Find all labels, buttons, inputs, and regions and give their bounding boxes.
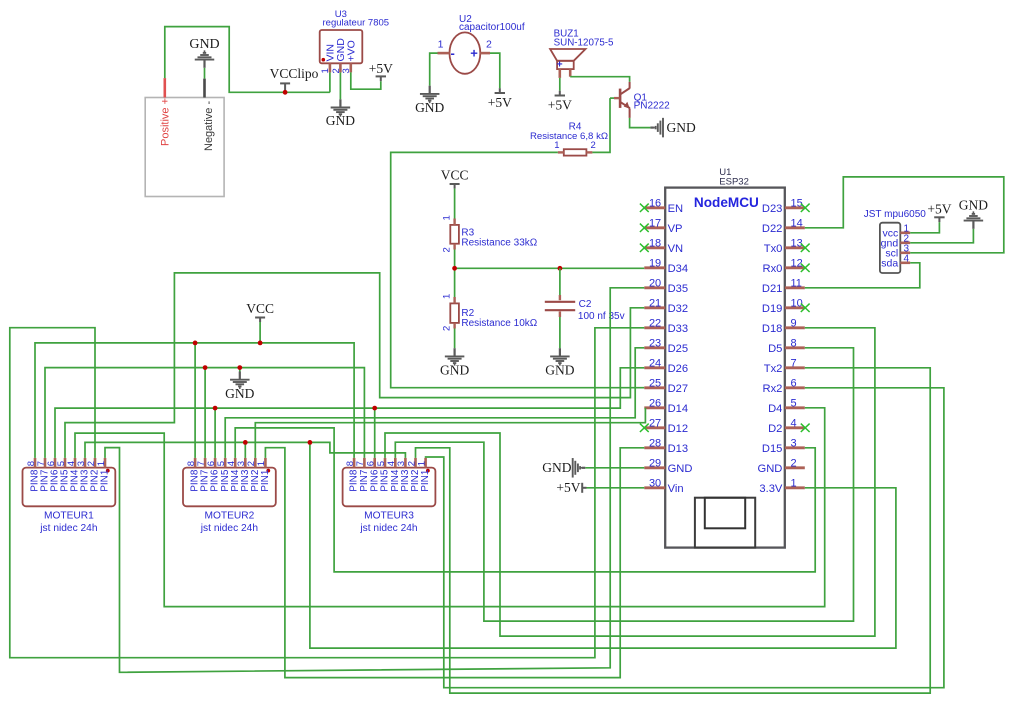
MOTEUR1 pin 5: [56, 458, 71, 492]
wire net GND motor PIN7 bus: [45, 368, 364, 458]
no-connect X at pin 10: [801, 304, 810, 312]
svg-text:Positive +: Positive +: [159, 98, 171, 146]
svg-text:Rx0: Rx0: [762, 263, 782, 275]
no-connect X at pin 17: [640, 224, 649, 232]
MOTEUR3 pin 7: [355, 458, 370, 492]
svg-text:9: 9: [791, 318, 797, 330]
svg-text:1: 1: [416, 461, 427, 466]
MOTEUR1 pin1 marker: [106, 469, 110, 473]
svg-text:18: 18: [649, 238, 661, 250]
wire net Rx2 pin 6 to MOTEUR3 PIN1: [426, 388, 944, 688]
power +5V at JST: [927, 202, 951, 222]
MOTEUR3 pin 8: [345, 458, 360, 492]
power VCC above R3: [441, 168, 469, 189]
wire net D18 pin 9 to MOTEUR3 PIN5: [385, 328, 875, 636]
wire VIN down to input node: [329, 72, 331, 92]
MOTEUR1 pin 2: [86, 458, 101, 492]
svg-text:1: 1: [554, 140, 559, 151]
svg-text:VCC: VCC: [441, 168, 469, 183]
svg-text:2: 2: [441, 326, 452, 331]
wire VCC to R3: [454, 189, 456, 219]
ESP32 pin 14 D22: [762, 218, 805, 235]
svg-text:JST mpu6050: JST mpu6050: [864, 209, 927, 220]
MOTEUR3 pin 1: [416, 458, 431, 492]
svg-text:sda: sda: [881, 257, 898, 269]
wire C2 to ground: [559, 317, 561, 348]
svg-text:Resistance 10kΩ: Resistance 10kΩ: [461, 318, 537, 329]
svg-text:D26: D26: [668, 363, 689, 375]
wire R4 to Q1 base: [592, 98, 610, 152]
MOTEUR2 pin 2: [246, 458, 261, 492]
MOTEUR1 pin 8: [26, 458, 41, 492]
svg-text:+VO: +VO: [346, 40, 358, 61]
wire net D25 pin 23 to MOTEUR2 PIN5: [225, 348, 644, 458]
svg-text:D34: D34: [668, 263, 689, 275]
svg-text:GND: GND: [440, 363, 469, 378]
ESP32 pin 26 D14: [644, 398, 688, 415]
ESP32 pin 19 D34: [644, 258, 688, 275]
ESP32 pin 6 Rx2: [762, 378, 804, 395]
MOTEUR2 pin 7: [196, 458, 211, 492]
svg-text:MOTEUR3: MOTEUR3: [364, 511, 414, 522]
svg-text:5: 5: [791, 398, 797, 410]
no-connect X at pin 13: [801, 244, 810, 252]
wire MOTEUR2 PIN6 to D26 bus: [214, 408, 216, 458]
junction VCC bus stem: [258, 341, 263, 346]
ground below PIN7 bus: [225, 372, 254, 402]
MOTEUR3 pin 3: [396, 458, 411, 492]
svg-text:jst nidec 24h: jst nidec 24h: [200, 523, 258, 534]
svg-text:D23: D23: [762, 203, 783, 215]
wire net sda JST to pin 11 D21: [805, 263, 920, 288]
battery connector J-LIPO box: [145, 98, 224, 197]
svg-text:D15: D15: [762, 443, 783, 455]
svg-text:Resistance 6,8 kΩ: Resistance 6,8 kΩ: [530, 131, 608, 142]
power +5V below buzzer: [548, 91, 572, 113]
svg-text:2: 2: [441, 247, 452, 252]
ESP32 pin 16 EN: [644, 198, 683, 215]
wire Q1 emitter to ground: [630, 118, 651, 128]
ESP32 pin 24 D26: [644, 358, 688, 375]
connector MOTEUR3 body: [343, 468, 436, 507]
connector JST mpu6050 body: [880, 223, 900, 273]
ground below U3: [326, 99, 355, 128]
ESP32 pin 17 VP: [644, 218, 682, 235]
ground below C2: [545, 348, 574, 377]
junction GND bus stem: [237, 365, 242, 370]
svg-text:D25: D25: [668, 343, 689, 355]
svg-text:30: 30: [649, 478, 661, 490]
ESP32 pin 20 D35: [644, 278, 688, 295]
ESP32 pin 10 D19: [762, 298, 805, 315]
svg-text:GND: GND: [758, 463, 783, 475]
svg-text:2: 2: [791, 458, 797, 470]
R3 pin 1 stub: [453, 219, 455, 225]
svg-text:D33: D33: [668, 323, 689, 335]
svg-text:D32: D32: [668, 303, 689, 315]
wire net D26 pin 24 to motor PIN6 bus: [55, 368, 644, 458]
svg-text:+5V: +5V: [548, 97, 572, 112]
svg-text:23: 23: [649, 338, 661, 350]
svg-text:+: +: [557, 59, 563, 71]
wire VCC stem: [259, 322, 261, 343]
connector MOTEUR1 body: [23, 468, 116, 507]
wire net D14 pin 26 to MOTEUR2 PIN2: [255, 408, 645, 458]
svg-text:NodeMCU: NodeMCU: [694, 195, 759, 210]
wire U2 pin1 to ground: [430, 53, 438, 86]
wire U2 pin2 to +5V: [490, 53, 500, 88]
svg-text:3.3V: 3.3V: [759, 483, 783, 495]
svg-text:D19: D19: [762, 303, 783, 315]
svg-text:28: 28: [649, 438, 661, 450]
wire GND bus stem: [239, 368, 241, 372]
wire net D32 pin 21 to MOTEUR1 PIN5: [65, 273, 644, 458]
MOTEUR3 pin 5: [376, 458, 391, 492]
U2 pin 1 stub: [438, 52, 450, 55]
svg-text:D27: D27: [668, 383, 689, 395]
ESP32 pin 2 GND: [758, 458, 805, 475]
wire JST gnd to ground: [910, 229, 973, 243]
wire net D4 pin 5 to MOTEUR1 PIN4: [75, 408, 825, 607]
wire MOTEUR2 PIN3 to 3.3V bus: [244, 442, 246, 458]
svg-text:6: 6: [791, 378, 797, 390]
no-connect X at pin 12: [801, 264, 810, 272]
ESP32 pin 18 VN: [644, 238, 683, 255]
ESP32 pin 1 3.3V: [759, 478, 804, 495]
MOTEUR2 pin1 marker: [266, 469, 270, 473]
ESP32 pin 5 D4: [768, 398, 805, 415]
svg-text:1: 1: [438, 39, 444, 51]
BUZ1 pin 2 stub: [569, 69, 572, 77]
junction D26 bus M3: [372, 406, 377, 411]
ESP32 pin 21 D32: [644, 298, 688, 315]
svg-text:PN2222: PN2222: [634, 101, 671, 112]
power flag VCClipo: [270, 66, 319, 92]
R4 pin 2 stub: [586, 151, 592, 153]
ground below U2: [415, 86, 444, 115]
wire negative to GND: [204, 68, 206, 79]
svg-text:4: 4: [791, 418, 797, 430]
wire net D13 pin 28 to MOTEUR2 PIN1: [265, 448, 644, 678]
ESP32 pin 11 D21: [762, 278, 805, 295]
wire MOTEUR2 PIN7 to GND bus: [204, 368, 206, 458]
junction VCC bus M2: [193, 341, 198, 346]
svg-text:8: 8: [791, 338, 797, 350]
junction GND bus M2: [203, 365, 208, 370]
svg-text:11: 11: [791, 278, 802, 290]
ground at ESP32 pin 29: [542, 458, 585, 478]
svg-text:PIN1: PIN1: [260, 469, 271, 492]
wire net D33 pin 22 to MOTEUR1 PIN2: [10, 328, 645, 658]
ESP32 pin 28 D13: [644, 438, 688, 455]
U3 pin 3 stub: [349, 63, 352, 72]
ESP32 usb connector: [695, 498, 755, 548]
JST pin 3 scl: [885, 243, 910, 259]
junction C2 top node: [558, 266, 563, 271]
svg-text:D13: D13: [668, 443, 689, 455]
no-connect X at pin 15: [801, 204, 810, 212]
svg-text:7: 7: [791, 358, 797, 370]
wire R3 to divider node: [454, 250, 456, 269]
MOTEUR1 pin 7: [36, 458, 51, 492]
svg-text:Resistance 33kΩ: Resistance 33kΩ: [461, 238, 537, 249]
svg-text:1: 1: [441, 215, 452, 220]
wire MOTEUR2 PIN8 to VCC bus: [194, 343, 196, 458]
MOTEUR1 pin 6: [46, 458, 61, 492]
wire +5V to pin 30: [587, 487, 645, 489]
svg-text:19: 19: [649, 258, 661, 270]
svg-text:PIN1: PIN1: [100, 469, 111, 492]
ground at JST: [959, 198, 988, 229]
resistor R4 6.8k body: [564, 149, 587, 155]
svg-text:C2: C2: [579, 299, 592, 310]
wire JST vcc to +5V: [910, 222, 939, 233]
junction R3 R2 node: [452, 266, 457, 271]
ESP32 pin 12 Rx0: [762, 258, 804, 275]
svg-text:26: 26: [649, 398, 661, 410]
JST pin 1 vcc: [882, 223, 910, 239]
ESP32 pin 27 D12: [644, 418, 688, 435]
svg-text:27: 27: [649, 418, 661, 430]
MOTEUR1 pin 3: [76, 458, 91, 492]
power +5V at U3 output: [369, 61, 393, 81]
no-connect X at pin 27: [640, 424, 649, 432]
capacitor U2 100uF body: [450, 32, 481, 73]
MOTEUR2 pin 1: [256, 458, 271, 492]
wire net scl JST to pin 14 D22: [805, 177, 1004, 253]
wire net Tx2 pin 7 to MOTEUR3 PIN2: [416, 368, 931, 693]
svg-text:D5: D5: [768, 343, 782, 355]
MOTEUR3 pin1 marker: [426, 469, 430, 473]
svg-text:22: 22: [649, 318, 661, 330]
svg-text:PIN1: PIN1: [420, 469, 431, 492]
power +5V below U2: [488, 88, 512, 110]
svg-text:GND: GND: [189, 37, 219, 52]
svg-text:D4: D4: [768, 403, 782, 415]
transistor Q1 PN2222: [614, 82, 630, 118]
battery positive pin: [164, 78, 167, 97]
svg-text:MOTEUR2: MOTEUR2: [204, 511, 254, 522]
MOTEUR2 pin 8: [186, 458, 201, 492]
wire net D15 pin 3 to MOTEUR2 PIN4: [235, 428, 815, 572]
wire net 3.3V bus to pin 1: [310, 442, 896, 648]
svg-text:ESP32: ESP32: [719, 177, 749, 188]
svg-text:jst nidec 24h: jst nidec 24h: [39, 523, 97, 534]
svg-text:D14: D14: [668, 403, 689, 415]
ESP32 pin 7 Tx2: [764, 358, 805, 375]
power VCC above motor bus: [246, 301, 274, 322]
ESP32 pin 8 D5: [768, 338, 805, 355]
wire Q1 base stub: [610, 97, 614, 99]
MOTEUR3 pin 2: [406, 458, 421, 492]
wire net VCC motor PIN8 bus: [35, 343, 354, 458]
svg-text:D22: D22: [762, 223, 783, 235]
svg-text:D2: D2: [768, 423, 782, 435]
U3 pin 2 stub: [339, 63, 342, 72]
junction VCClipo node: [283, 90, 288, 95]
wire net D5 pin 8 to MOTEUR3 PIN4: [395, 348, 853, 621]
ESP32 pin 29 GND: [644, 458, 692, 475]
wire C2 top: [559, 268, 561, 295]
svg-text:20: 20: [649, 278, 661, 290]
svg-text:3: 3: [791, 438, 797, 450]
ground at Q1 emitter: [650, 118, 696, 138]
MOTEUR3 pin 6: [366, 458, 381, 492]
JST pin 2 gnd: [881, 233, 911, 249]
svg-text:29: 29: [649, 458, 661, 470]
svg-text:D35: D35: [668, 283, 689, 295]
svg-text:VN: VN: [668, 243, 684, 255]
wire net D35 pin 20 to MOTEUR1 PIN1: [105, 288, 644, 673]
wire ground to pin 29: [585, 467, 644, 469]
svg-text:SUN-12075-5: SUN-12075-5: [554, 37, 614, 48]
svg-text:D12: D12: [668, 423, 689, 435]
ESP32 pin 15 D23: [762, 198, 805, 215]
junction 3.3V bus drop: [308, 440, 313, 445]
U3 pin 1 stub: [329, 63, 332, 72]
svg-text:-: -: [451, 46, 455, 61]
svg-text:2: 2: [591, 140, 596, 151]
svg-text:24: 24: [649, 358, 661, 370]
svg-text:4: 4: [904, 253, 910, 264]
MOTEUR1 pin 4: [66, 458, 81, 492]
svg-text:+5V: +5V: [488, 95, 512, 110]
svg-text:Negative -: Negative -: [203, 101, 215, 151]
svg-text:Tx2: Tx2: [764, 363, 783, 375]
svg-text:GND: GND: [326, 113, 355, 128]
connector MOTEUR2 body: [183, 468, 276, 507]
no-connect X at pin 4: [801, 424, 810, 432]
svg-text:MOTEUR1: MOTEUR1: [44, 511, 94, 522]
wire buzzer pin1 down: [559, 78, 561, 91]
svg-text:GND: GND: [225, 386, 254, 401]
svg-text:1: 1: [96, 461, 107, 466]
svg-text:100 nf 35v: 100 nf 35v: [578, 311, 625, 322]
svg-text:25: 25: [649, 378, 661, 390]
ground above battery negative: [189, 37, 219, 68]
svg-text:GND: GND: [959, 198, 988, 213]
resistor R3 33k body: [450, 225, 459, 244]
junction D26 bus M2: [213, 406, 218, 411]
svg-text:Vin: Vin: [668, 483, 684, 495]
JST pin 4 sda: [881, 253, 910, 269]
buzzer BUZ1 body: [550, 49, 585, 69]
power +5V at ESP32 pin 30: [556, 480, 586, 495]
svg-text:GND: GND: [545, 363, 574, 378]
svg-text:D21: D21: [762, 283, 783, 295]
svg-text:GND: GND: [668, 463, 693, 475]
wire battery + to U3 VIN: [165, 27, 330, 93]
svg-text:GND: GND: [667, 120, 696, 135]
svg-text:1: 1: [791, 478, 797, 490]
MOTEUR3 pin 4: [386, 458, 401, 492]
ESP32 pin 3 D15: [762, 438, 805, 455]
svg-text:+: +: [470, 46, 478, 61]
svg-text:regulateur 7805: regulateur 7805: [323, 18, 390, 29]
R2 pin 1 stub: [453, 297, 455, 303]
ESP32 pin 23 D25: [644, 338, 688, 355]
wire net 3.3V motor PIN3 bus with jog: [85, 442, 405, 458]
svg-text:VCC: VCC: [246, 301, 274, 316]
svg-text:16: 16: [649, 198, 661, 210]
ESP32 pin 25 D27: [644, 378, 688, 395]
resistor R2 10k body: [450, 303, 459, 323]
svg-text:D18: D18: [762, 323, 783, 335]
R4 pin 1 stub: [558, 151, 564, 153]
R2 pin 2 stub: [453, 323, 455, 329]
svg-text:+5V: +5V: [556, 480, 580, 495]
svg-text:VCClipo: VCClipo: [270, 66, 319, 81]
svg-text:14: 14: [791, 218, 803, 230]
wire U3 GND pin down: [339, 72, 341, 99]
capacitor C2 body: [545, 295, 575, 317]
junction 3.3V bus M2: [243, 440, 248, 445]
wire U3 +VO to +5V: [351, 72, 381, 89]
BUZ1 pin 1 stub: [558, 69, 561, 78]
svg-text:17: 17: [649, 218, 661, 230]
svg-text:capacitor100uf: capacitor100uf: [459, 22, 525, 33]
U2 pin 2 stub: [480, 52, 490, 55]
ESP32 pin 4 D2: [768, 418, 805, 435]
ESP32 pin 30 Vin: [644, 478, 683, 495]
R3 pin 2 stub: [453, 244, 455, 250]
MOTEUR2 pin 3: [236, 458, 251, 492]
ESP32 pin 22 D33: [644, 318, 688, 335]
ESP32 module U1 body: [665, 188, 785, 548]
ground below R2: [440, 348, 469, 377]
ESP32 pin 9 D18: [762, 318, 805, 335]
MOTEUR1 pin 1: [96, 458, 111, 492]
svg-text:+5V: +5V: [369, 61, 393, 76]
svg-text:2: 2: [486, 39, 492, 51]
svg-text:jst nidec 24h: jst nidec 24h: [359, 523, 417, 534]
svg-text:1: 1: [256, 461, 267, 466]
MOTEUR2 pin 6: [206, 458, 221, 492]
MOTEUR2 pin 5: [216, 458, 231, 492]
U3 pin1 marker: [322, 58, 326, 62]
ESP32 pin 13 Tx0: [764, 238, 805, 255]
wire net D34 divider to pin 19: [455, 267, 645, 269]
no-connect X at pin 18: [640, 244, 649, 252]
svg-text:GND: GND: [415, 100, 444, 115]
battery negative pin: [203, 79, 206, 98]
wire R2 to ground: [454, 329, 456, 349]
svg-text:+5V: +5V: [927, 202, 951, 217]
no-connect X at pin 16: [640, 204, 649, 212]
svg-text:GND: GND: [542, 460, 571, 475]
svg-text:EN: EN: [668, 203, 684, 215]
wire buzzer pin2 to Q1 collector: [570, 77, 629, 82]
wire divider node to R2: [454, 268, 456, 297]
svg-text:21: 21: [649, 298, 661, 310]
svg-text:Rx2: Rx2: [762, 383, 782, 395]
svg-text:Tx0: Tx0: [764, 243, 783, 255]
wire net D27 from R4 to pin 25: [391, 152, 645, 387]
regulator U3 7805 body: [320, 30, 363, 63]
svg-text:VP: VP: [668, 223, 683, 235]
wire MOTEUR3 PIN6 to D26 bus: [374, 408, 376, 458]
svg-text:1: 1: [441, 294, 452, 299]
MOTEUR2 pin 4: [226, 458, 241, 492]
